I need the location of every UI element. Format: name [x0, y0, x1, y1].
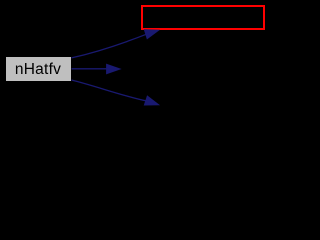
- arrowhead to red node: [144, 29, 160, 39]
- truncated callee node (red outlined box, top right): [142, 6, 264, 29]
- edge wire to red node: [72, 34, 147, 58]
- hidden callee node (middle right, black on black): [122, 58, 234, 81]
- edge wire to bottom node: [72, 80, 148, 101]
- svg-text:nHatfv: nHatfv: [15, 61, 61, 78]
- arrowhead to middle node: [106, 64, 122, 75]
- hidden callee node (bottom right, black on black): [161, 94, 276, 117]
- node nHatfv (current node, grey filled): [6, 57, 71, 81]
- edge wire to middle node: [72, 68, 108, 70]
- arrowhead to bottom node: [144, 95, 160, 105]
